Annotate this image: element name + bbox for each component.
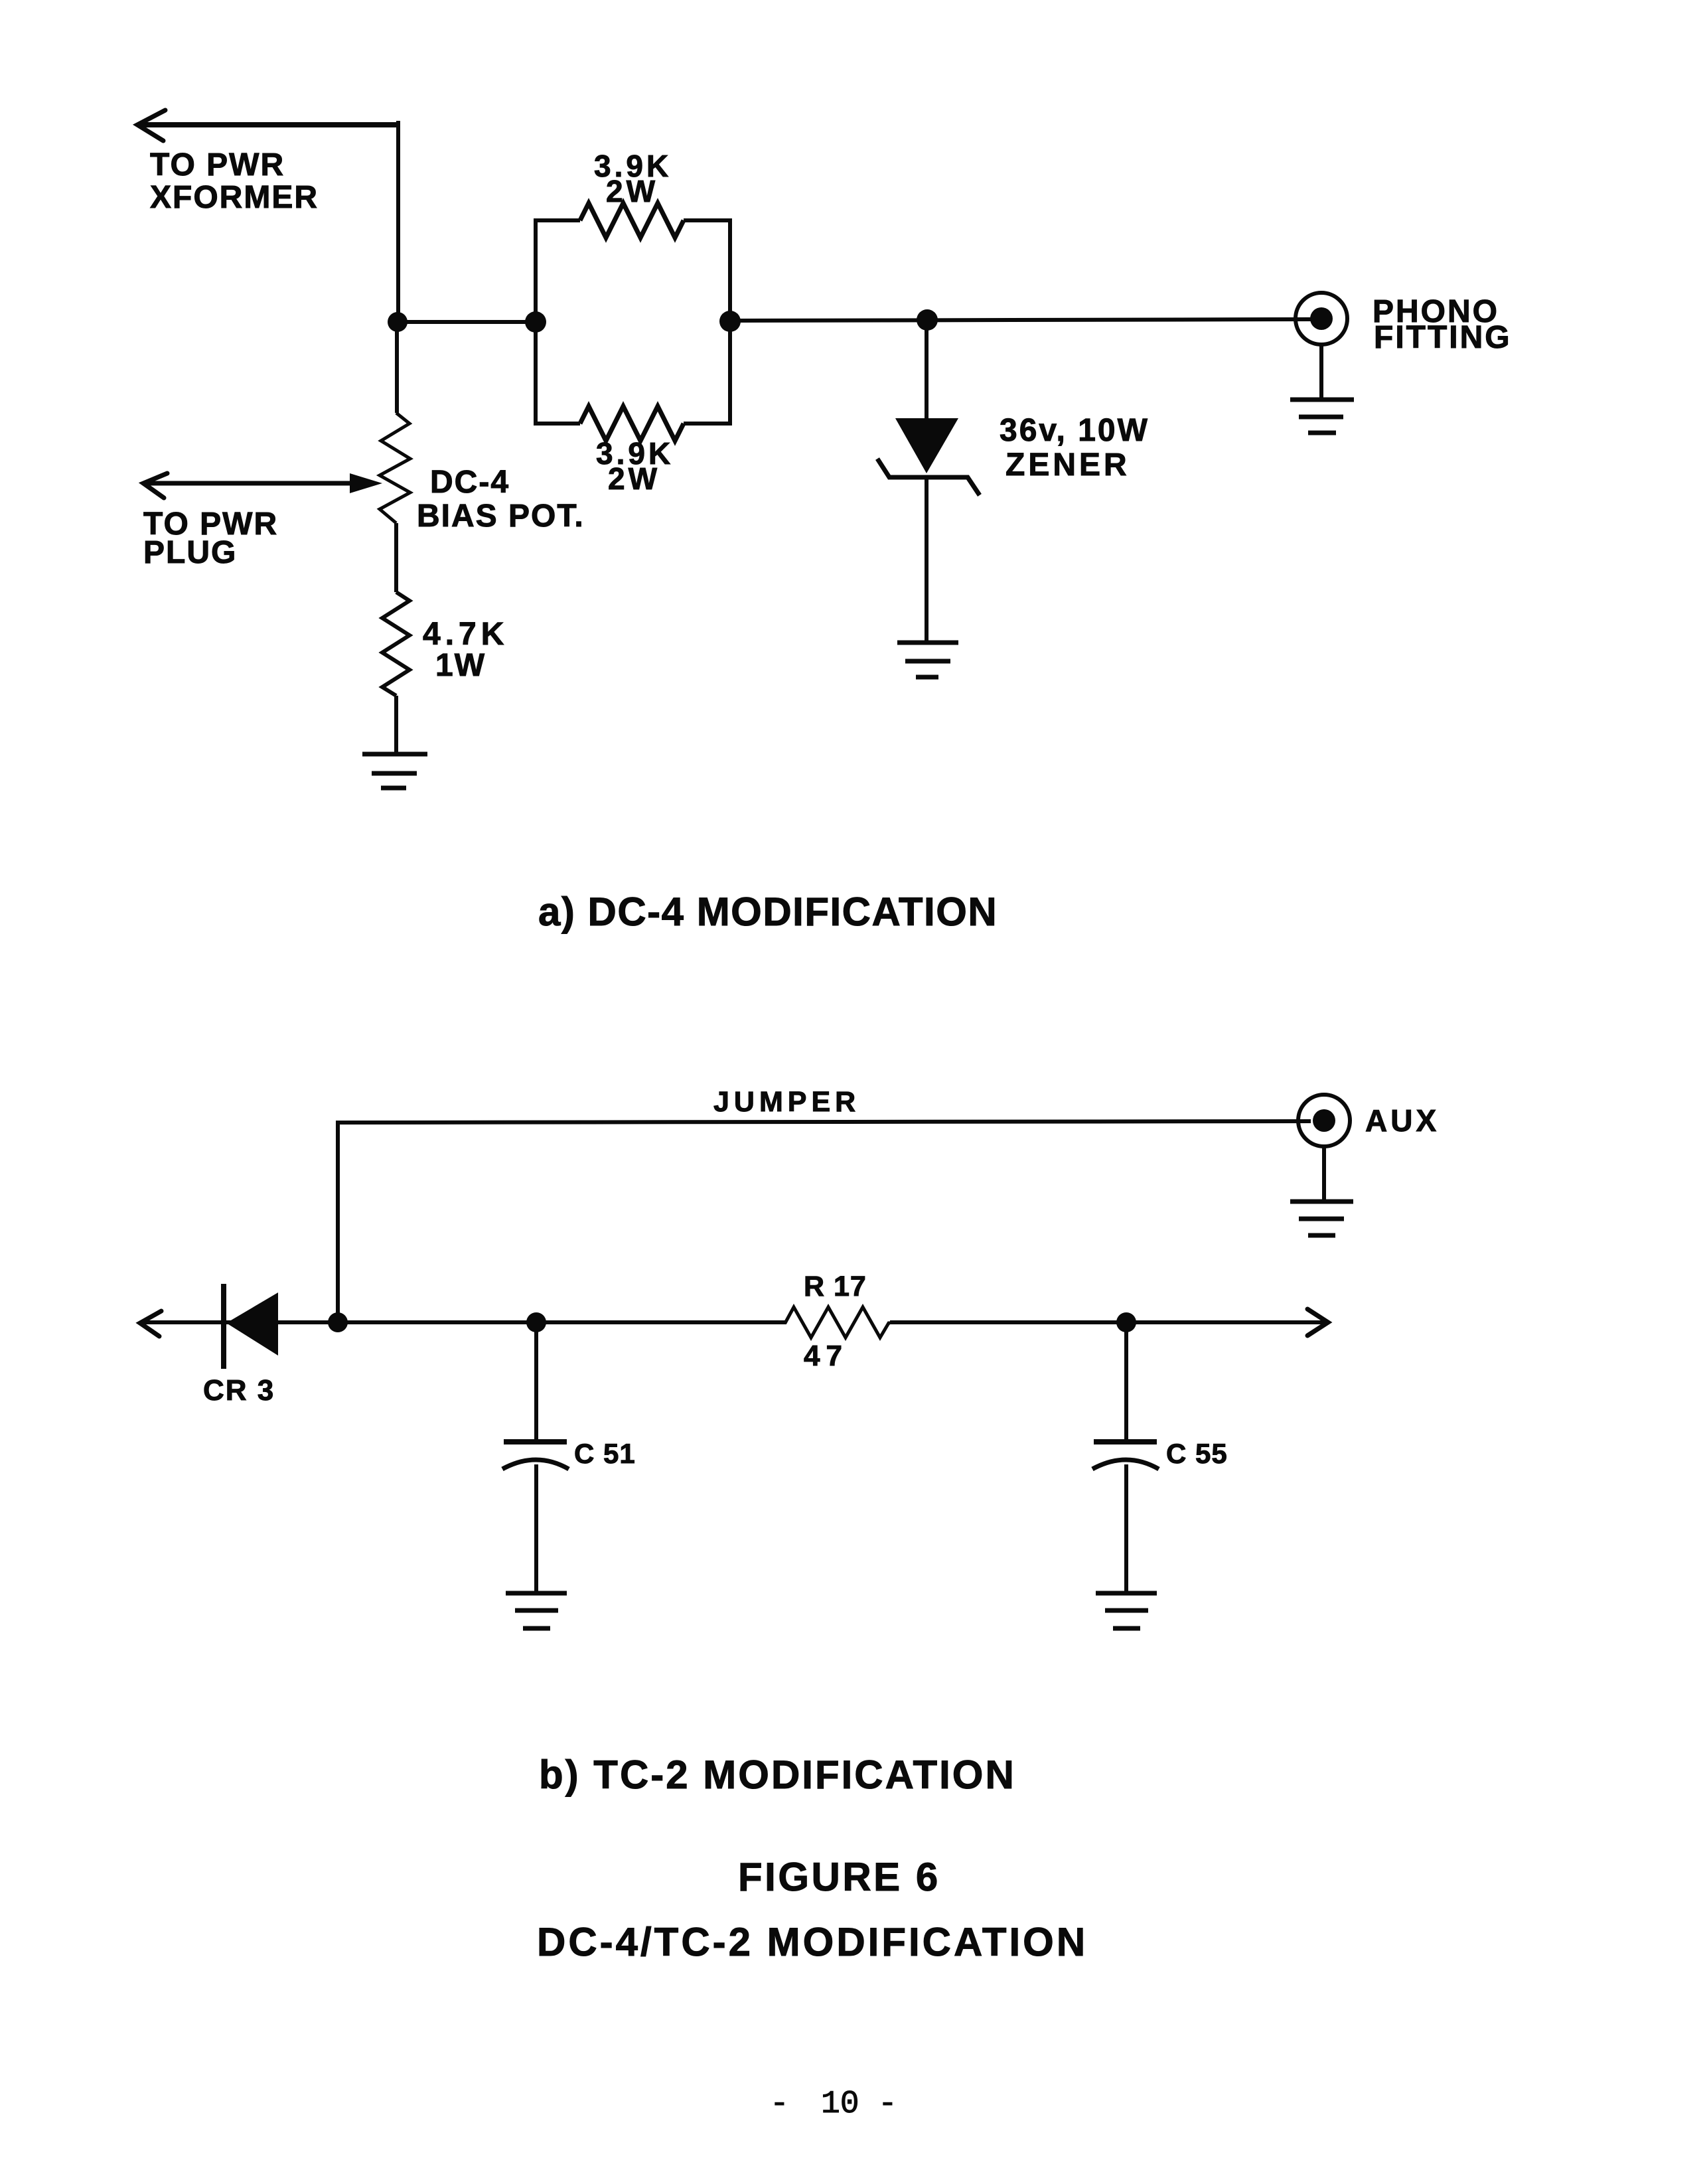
resistor 3.9K 2W (bottom of loop) bbox=[580, 406, 684, 441]
wire zener to ground bbox=[925, 477, 928, 641]
svg-text:b) TC-2 MODIFICATION: b) TC-2 MODIFICATION bbox=[539, 1753, 1016, 1797]
svg-text:C 51: C 51 bbox=[574, 1438, 636, 1469]
value label 3.9K 2W (top) bbox=[594, 149, 672, 208]
diode CR3 bbox=[224, 1284, 278, 1369]
wire lower-right branch of parallel loop bbox=[684, 322, 730, 424]
wire main rail right segment (section b) bbox=[890, 1320, 1327, 1324]
node C (right of parallel resistors) bbox=[719, 311, 741, 332]
svg-text:DC-4: DC-4 bbox=[430, 465, 510, 500]
wire node C to phono fitting bbox=[730, 319, 1311, 321]
svg-text:ZENER: ZENER bbox=[1005, 447, 1130, 483]
svg-text:1W: 1W bbox=[435, 648, 486, 683]
svg-text:C 55: C 55 bbox=[1166, 1438, 1228, 1469]
svg-text:47: 47 bbox=[804, 1340, 848, 1372]
label DC-4 BIAS POT. bbox=[417, 465, 585, 534]
node B (left of parallel resistors) bbox=[525, 311, 546, 333]
wire to PWR XFORMER (top rail) bbox=[137, 122, 398, 127]
resistor 3.9K 2W (top of loop) bbox=[580, 203, 684, 238]
connector J2 AUX bbox=[1298, 1095, 1350, 1146]
wire node A down to bias pot bbox=[395, 322, 399, 413]
wire AUX to ground bbox=[1322, 1146, 1326, 1202]
potentiometer R1 DC-4 bias pot element bbox=[380, 413, 410, 523]
wire phono to ground bbox=[1319, 345, 1323, 400]
svg-text:DC-4/TC-2 MODIFICATION: DC-4/TC-2 MODIFICATION bbox=[537, 1920, 1088, 1964]
svg-text:4.7K: 4.7K bbox=[423, 617, 508, 652]
label PHONO FITTING bbox=[1373, 294, 1512, 355]
svg-text:2W: 2W bbox=[606, 174, 658, 208]
wire node D down to zener bbox=[925, 320, 928, 420]
capacitor C55 bbox=[1092, 1322, 1159, 1593]
svg-text:AUX: AUX bbox=[1365, 1103, 1440, 1138]
svg-text:10: 10 bbox=[821, 2086, 859, 2122]
ground (below AUX) bbox=[1290, 1202, 1353, 1235]
ground (below C55) bbox=[1096, 1593, 1157, 1628]
wire wiper to PWR PLUG bbox=[143, 481, 353, 486]
svg-text:R 17: R 17 bbox=[804, 1271, 867, 1302]
svg-text:JUMPER: JUMPER bbox=[713, 1086, 860, 1118]
svg-text:36v, 10W: 36v, 10W bbox=[1000, 413, 1150, 448]
node 1 (jumper tap) bbox=[328, 1312, 348, 1332]
wire pot to 4.7K resistor bbox=[394, 523, 398, 592]
node 3 (C55 tap) bbox=[1116, 1312, 1136, 1332]
ground (below 4.7K) bbox=[362, 754, 427, 788]
capacitor C51 bbox=[502, 1322, 569, 1593]
node 2 (C51 tap) bbox=[526, 1312, 546, 1332]
wire node A to node B bbox=[398, 320, 536, 324]
wire upper-left branch of parallel loop bbox=[536, 220, 580, 322]
arrow head left (section b rail) bbox=[140, 1311, 161, 1336]
arrow head right (section b rail) bbox=[1307, 1309, 1328, 1336]
svg-text:FIGURE 6: FIGURE 6 bbox=[738, 1855, 940, 1899]
wire 4.7K to ground bbox=[394, 696, 398, 754]
connector J1 phono fitting bbox=[1296, 293, 1347, 345]
zener diode 36v 10W bbox=[877, 418, 980, 495]
label TO PWR PLUG bbox=[143, 507, 278, 570]
svg-text:TO PWR: TO PWR bbox=[150, 147, 285, 183]
svg-text:-: - bbox=[770, 2086, 789, 2122]
resistor R17 bbox=[785, 1307, 890, 1338]
svg-text:a) DC-4 MODIFICATION: a) DC-4 MODIFICATION bbox=[538, 890, 998, 934]
svg-text:2W: 2W bbox=[608, 461, 660, 496]
arrow head to PWR PLUG bbox=[143, 473, 167, 498]
svg-text:XFORMER: XFORMER bbox=[150, 180, 319, 215]
arrow head to PWR XFORMER bbox=[137, 110, 165, 141]
ground (below C51) bbox=[506, 1593, 567, 1628]
svg-text:PLUG: PLUG bbox=[143, 535, 237, 570]
svg-text:FITTING: FITTING bbox=[1374, 320, 1512, 355]
resistor 4.7K 1W bbox=[382, 592, 409, 696]
ground (below zener) bbox=[897, 643, 958, 677]
svg-text:-: - bbox=[878, 2086, 897, 2122]
label TO PWR XFORMER bbox=[150, 147, 319, 215]
node D (zener tap) bbox=[917, 309, 938, 331]
svg-text:BIAS POT.: BIAS POT. bbox=[417, 499, 585, 534]
wire lower-left branch of parallel loop bbox=[536, 322, 580, 424]
wire from top rail down to node A bbox=[397, 121, 398, 322]
page number - 10 - bbox=[770, 2086, 897, 2122]
value label 4.7K 1W bbox=[423, 617, 508, 683]
ground (below phono fitting) bbox=[1290, 400, 1354, 433]
wire upper-right branch of parallel loop bbox=[684, 220, 730, 322]
value label 3.9K 2W (bottom) bbox=[596, 436, 674, 496]
wiper arrow head (filled) bbox=[350, 473, 382, 493]
wire jumper from node 1 to AUX bbox=[338, 1121, 1311, 1322]
svg-text:CR 3: CR 3 bbox=[203, 1374, 275, 1407]
value label 36v,10W ZENER bbox=[1000, 413, 1150, 483]
node A (junction at bias pot) bbox=[388, 312, 408, 332]
wire main rail left segment (section b) bbox=[142, 1320, 786, 1324]
